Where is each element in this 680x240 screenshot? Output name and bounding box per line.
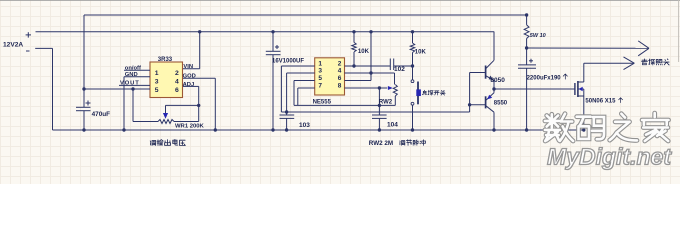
svg-text:3R33: 3R33 bbox=[158, 57, 173, 63]
svg-text:103: 103 bbox=[299, 122, 310, 129]
svg-text:NE555: NE555 bbox=[313, 100, 332, 106]
svg-text:5W 10: 5W 10 bbox=[530, 33, 546, 39]
svg-text:WR1 200K: WR1 200K bbox=[175, 124, 205, 130]
svg-text:3: 3 bbox=[318, 67, 322, 74]
svg-text:8: 8 bbox=[338, 82, 342, 89]
svg-text:16V1000UF: 16V1000UF bbox=[272, 59, 304, 65]
svg-text:2200uFx190: 2200uFx190 bbox=[527, 75, 562, 81]
svg-text:10K: 10K bbox=[358, 49, 370, 55]
svg-text:4: 4 bbox=[175, 79, 179, 86]
svg-text:1: 1 bbox=[155, 70, 159, 77]
svg-text:2: 2 bbox=[338, 60, 342, 67]
svg-text:MyDigit.net: MyDigit.net bbox=[547, 144, 672, 170]
svg-text:3: 3 bbox=[155, 79, 159, 86]
svg-text:7: 7 bbox=[318, 82, 322, 89]
svg-text:RW2 2M: RW2 2M bbox=[369, 140, 393, 147]
svg-text:6: 6 bbox=[338, 75, 342, 82]
svg-text:5: 5 bbox=[155, 87, 159, 94]
svg-text:8550: 8550 bbox=[494, 101, 508, 107]
svg-text:VIN: VIN bbox=[183, 64, 193, 70]
svg-text:12V2A: 12V2A bbox=[3, 41, 23, 48]
svg-text:RW2: RW2 bbox=[379, 99, 393, 105]
svg-text:50N06 X15: 50N06 X15 bbox=[585, 99, 616, 105]
svg-text:2: 2 bbox=[175, 70, 179, 77]
svg-text:10K: 10K bbox=[415, 49, 427, 55]
svg-text:4: 4 bbox=[338, 67, 342, 74]
svg-text:1: 1 bbox=[318, 60, 322, 67]
svg-text:102: 102 bbox=[394, 66, 405, 73]
svg-text:5: 5 bbox=[318, 75, 322, 82]
svg-text:6: 6 bbox=[175, 87, 179, 94]
svg-text:8050: 8050 bbox=[490, 77, 505, 84]
svg-text:104: 104 bbox=[387, 122, 398, 129]
svg-text:470uF: 470uF bbox=[92, 111, 111, 118]
